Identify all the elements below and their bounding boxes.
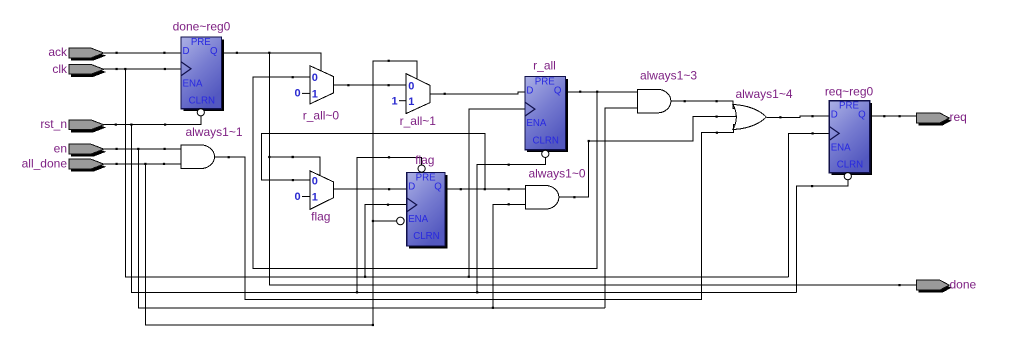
svg-text:Q: Q xyxy=(210,46,218,57)
wire clk branch to r_all clock xyxy=(469,109,525,277)
junction dot (492,307) xyxy=(492,307,494,309)
wire r_all Q feedback to r_all~0 input 0 xyxy=(253,77,597,269)
junction dot (236,52) xyxy=(236,52,238,54)
wire net done~reg0 Q to r_all~0 select xyxy=(224,53,322,71)
junction dot (388,156) xyxy=(388,156,390,158)
junction dot (292,156) xyxy=(292,156,294,158)
junction dot (116,148) xyxy=(116,148,118,150)
junction dot (508,164) xyxy=(508,164,510,166)
output pin done xyxy=(917,277,977,292)
junction dot (115,124) xyxy=(115,124,117,126)
junction dot (579,91) xyxy=(579,91,581,93)
svg-text:D: D xyxy=(831,110,838,121)
junction dot (163,163) xyxy=(163,163,165,165)
wire all_done branch to flag ENA xyxy=(373,220,397,222)
svg-text:req: req xyxy=(950,110,967,124)
junction dot (124,68) xyxy=(124,68,126,70)
svg-text:req~reg0: req~reg0 xyxy=(825,85,874,99)
input pin ack xyxy=(48,45,106,60)
input pin rst_n xyxy=(40,117,106,132)
junction dot (292,156) xyxy=(292,156,294,158)
svg-text:CLRN: CLRN xyxy=(189,95,215,106)
junction dot (163,52) xyxy=(163,52,165,54)
svg-text:ENA: ENA xyxy=(526,118,546,129)
junction dot (137,148) xyxy=(137,148,139,150)
and gate always1~1 xyxy=(181,125,243,169)
wire clk branch to flag clock xyxy=(365,205,407,278)
wire rst_n branch to r_all CLRN xyxy=(477,158,545,293)
junction dot (508,203) xyxy=(508,203,510,205)
svg-text:always1~1: always1~1 xyxy=(185,125,242,139)
flip-flop req~reg0 xyxy=(825,85,874,180)
svg-text:r_all: r_all xyxy=(533,59,556,73)
svg-text:0: 0 xyxy=(408,81,414,93)
wire net clk horizontal xyxy=(104,68,181,70)
junction dot (116,52) xyxy=(116,52,118,54)
junction dot (372,324) xyxy=(372,324,374,326)
svg-text:ack: ack xyxy=(48,45,68,59)
wire en branch to always1~0 input xyxy=(493,204,526,308)
junction dot (116,68) xyxy=(116,68,118,70)
svg-text:PRE: PRE xyxy=(839,101,859,112)
junction dot (356,291) xyxy=(356,291,358,293)
junction dot (144,163) xyxy=(144,163,146,165)
svg-text:CLRN: CLRN xyxy=(413,231,439,242)
svg-text:1: 1 xyxy=(392,96,398,108)
junction dot (684,100) xyxy=(684,100,686,102)
input pin clk xyxy=(52,62,106,77)
wire net flag Q to always1~0 input xyxy=(445,188,525,190)
svg-text:ENA: ENA xyxy=(831,142,851,153)
wire net r_all~0 output to r_all~1 input 0 xyxy=(333,84,406,86)
svg-text:done~reg0: done~reg0 xyxy=(173,20,231,34)
junction dot (460,188) xyxy=(460,188,462,190)
svg-text:0: 0 xyxy=(312,72,318,84)
svg-text:rst_n: rst_n xyxy=(40,117,67,131)
svg-text:always1~0: always1~0 xyxy=(528,167,585,181)
wire net always1~1 output to always1~4 input xyxy=(215,125,736,300)
junction dot (476,291) xyxy=(476,291,478,293)
junction dot (164,68) xyxy=(164,68,166,70)
junction dot (596,91) xyxy=(596,91,598,93)
junction dot (164,148) xyxy=(164,148,166,150)
junction dot (779,116) xyxy=(779,116,781,118)
wire net rst_n to CLRN of done~reg0 xyxy=(104,116,201,125)
and gate always1~3 xyxy=(637,68,697,113)
svg-text:r_all~1: r_all~1 xyxy=(400,114,437,128)
wire all_done bus vertical and bottom run xyxy=(145,164,373,325)
svg-text:always1~4: always1~4 xyxy=(735,87,792,101)
junction dot (573,196) xyxy=(573,196,575,198)
junction dot (372,220) xyxy=(372,220,374,222)
wire net all_done to always1~1 input xyxy=(104,163,181,165)
svg-text:0: 0 xyxy=(295,191,301,203)
junction dot (130,124) xyxy=(130,124,132,126)
svg-text:0: 0 xyxy=(312,176,318,188)
svg-text:flag: flag xyxy=(311,209,330,223)
svg-text:Q: Q xyxy=(434,181,442,192)
junction and vertex dots xyxy=(115,52,901,326)
svg-text:clk: clk xyxy=(52,62,68,76)
svg-text:1: 1 xyxy=(408,96,414,108)
svg-text:CLRN: CLRN xyxy=(837,160,863,171)
junction dot (716,132) xyxy=(716,132,718,134)
svg-text:PRE: PRE xyxy=(191,37,211,48)
output pin req xyxy=(917,110,967,126)
and gate always1~0 xyxy=(525,167,585,210)
wire net en to always1~1 input xyxy=(104,148,181,150)
svg-text:0: 0 xyxy=(295,88,301,100)
wire net r_all Q to always1~3 input xyxy=(568,91,637,93)
wire done branch to flag mux select xyxy=(269,157,320,176)
wire rst_n bus vertical and bottom run xyxy=(131,125,796,293)
junction dot (388,188) xyxy=(388,188,390,190)
junction dot (116,163) xyxy=(116,163,118,165)
svg-text:D: D xyxy=(183,46,190,57)
junction dot (883,115) xyxy=(883,115,885,117)
svg-text:Q: Q xyxy=(858,110,866,121)
junction dot (292,76) xyxy=(292,76,294,78)
svg-text:ENA: ENA xyxy=(408,214,428,225)
svg-text:1: 1 xyxy=(312,192,318,204)
svg-text:always1~3: always1~3 xyxy=(640,68,697,82)
wire net always1~0 output to always1~4 input xyxy=(559,117,739,198)
wire net ack to D of done~reg0 xyxy=(104,52,181,54)
junction dot (811,115) xyxy=(811,115,813,117)
mux r_all~0 xyxy=(295,66,340,123)
junction dot (347,84) xyxy=(347,84,349,86)
svg-text:D: D xyxy=(526,85,533,96)
mux r_all~1 xyxy=(392,74,437,128)
svg-text:all_done: all_done xyxy=(22,156,68,170)
junction dot (292,179) xyxy=(292,179,294,181)
junction dot (716,100) xyxy=(716,100,718,102)
or gate always1~4 xyxy=(733,87,793,130)
wire net clk bus vertical and bottom run xyxy=(125,69,788,277)
svg-text:PRE: PRE xyxy=(416,173,436,184)
wire net r_all~1 output to r_all D xyxy=(430,92,525,94)
wire rst_n branch to flag PRE xyxy=(357,157,422,292)
svg-text:CLRN: CLRN xyxy=(533,136,559,147)
junction dot (812,132) xyxy=(812,132,814,134)
junction dot (228,156) xyxy=(228,156,230,158)
svg-text:ENA: ENA xyxy=(183,79,203,90)
wire net always1~4 output to req~reg0 D xyxy=(766,116,829,117)
junction dot (588,140) xyxy=(588,140,590,142)
svg-text:Q: Q xyxy=(554,85,562,96)
junction dot (268,52) xyxy=(268,52,270,54)
wire done branch vertical and run to done pin xyxy=(269,53,916,285)
mux flag xyxy=(295,171,334,224)
junction dot (898,284) xyxy=(898,284,900,286)
wire en branch to always1~3 input xyxy=(605,108,637,308)
wire flag Q feedback riser xyxy=(261,133,485,189)
input pin en xyxy=(54,141,106,156)
svg-text:1: 1 xyxy=(312,89,318,101)
junction dot (508,188) xyxy=(508,188,510,190)
junction dot (444,93) xyxy=(444,93,446,95)
wire rst_n branch to req~reg0 CLRN xyxy=(797,180,848,292)
junction dot (388,84) xyxy=(388,84,390,86)
junction dot (484,188) xyxy=(484,188,486,190)
junction dot (811,185) xyxy=(811,185,813,187)
svg-text:en: en xyxy=(54,141,67,155)
junction dot (716,116) xyxy=(716,116,718,118)
wire net flag mux output to flag D xyxy=(334,188,407,190)
svg-text:PRE: PRE xyxy=(535,77,555,88)
svg-text:r_all~0: r_all~0 xyxy=(303,109,340,123)
junction dot (387,204) xyxy=(387,204,389,206)
wire all_done vertical riser to r_all~1 select xyxy=(373,61,417,325)
flip-flop r_all xyxy=(525,59,568,158)
junction dot (164,124) xyxy=(164,124,166,126)
svg-text:flag: flag xyxy=(415,153,434,167)
junction dot (898,115) xyxy=(899,115,901,117)
svg-text:D: D xyxy=(408,181,415,192)
junction dot (468,276) xyxy=(468,276,470,278)
junction dot (388,60) xyxy=(388,60,390,62)
flip-flop flag xyxy=(397,153,448,248)
wire clk branch to req~reg0 clock xyxy=(789,133,830,277)
flip-flop done~reg0 xyxy=(173,20,231,116)
junction dot (268,156) xyxy=(268,156,270,158)
junction dot (364,276) xyxy=(364,276,366,278)
wire net always1~3 output to always1~4 input xyxy=(671,101,736,109)
input pin all_done xyxy=(22,156,106,171)
wire net req~reg0 Q to req pin xyxy=(872,115,916,117)
svg-text:done: done xyxy=(950,277,977,291)
wire en bus vertical and bottom run xyxy=(138,149,605,308)
